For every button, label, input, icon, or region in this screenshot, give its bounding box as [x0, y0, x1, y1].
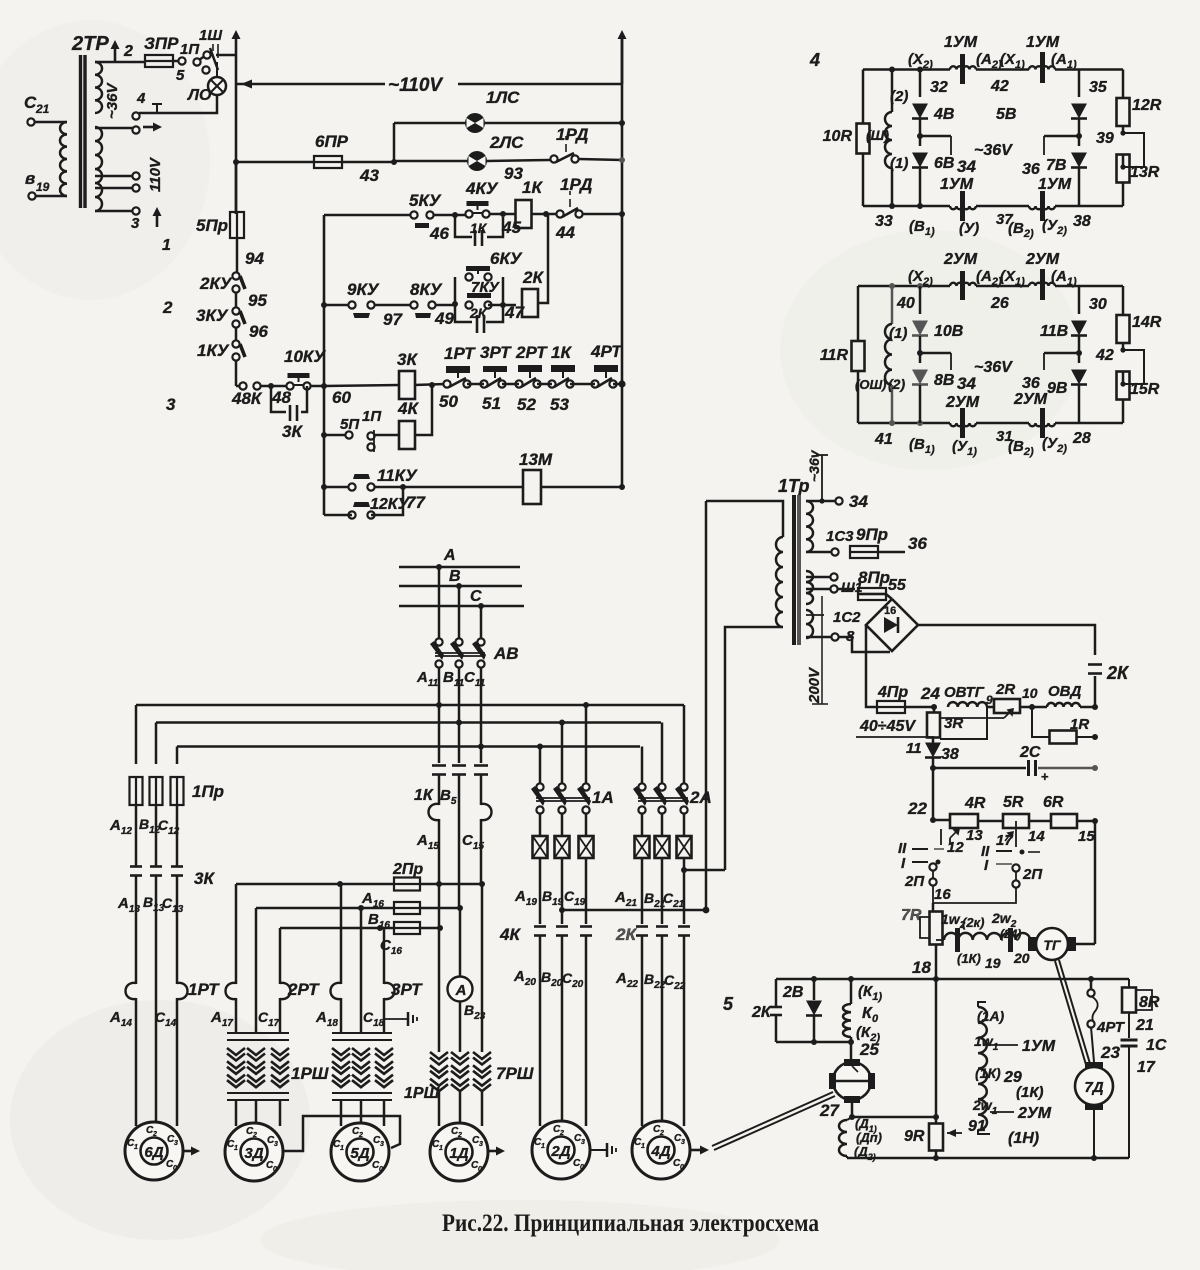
svg-text:36: 36 [1022, 375, 1040, 392]
svg-text:7РШ: 7РШ [496, 1064, 534, 1083]
svg-text:36: 36 [908, 534, 927, 553]
svg-text:43: 43 [359, 166, 379, 185]
aux contact 2К parallel frame [455, 277, 506, 333]
terminal В19 [25, 169, 50, 200]
resistor 1R [1032, 707, 1098, 744]
svg-text:42: 42 [1095, 347, 1114, 364]
terminal С21 [24, 93, 50, 126]
svg-text:4: 4 [136, 90, 146, 107]
svg-text:50: 50 [439, 392, 458, 411]
labels А17 С17 [210, 1009, 280, 1029]
svg-text:Рис.22. Принципиальная электро: Рис.22. Принципиальная электросхема [442, 1210, 819, 1237]
1Д leads [439, 1092, 482, 1138]
potentiometer 2R [987, 681, 1020, 713]
wire А16 rung [256, 905, 463, 911]
fuse 1Пр А12 [130, 777, 143, 805]
bus B [399, 568, 522, 586]
svg-text:5В: 5В [996, 106, 1016, 123]
svg-text:95: 95 [248, 291, 267, 310]
thermal contact 2РТ [515, 343, 548, 414]
svg-text:4R: 4R [964, 795, 986, 812]
label 45 [501, 218, 521, 237]
label 97 [383, 310, 403, 329]
svg-text:~36V: ~36V [974, 359, 1013, 376]
svg-text:5R: 5R [1003, 794, 1024, 811]
coil ОВД [1020, 683, 1082, 710]
svg-text:32: 32 [930, 79, 948, 96]
svg-text:3: 3 [174, 1140, 178, 1147]
svg-text:1Тр: 1Тр [778, 476, 810, 496]
button 7КУ [465, 279, 500, 309]
svg-text:34: 34 [957, 374, 976, 393]
svg-text:1П: 1П [180, 41, 200, 58]
resistor 8R [1122, 979, 1160, 1013]
svg-text:6КУ: 6КУ [490, 249, 523, 268]
svg-text:2R: 2R [995, 681, 1015, 698]
svg-text:49: 49 [434, 309, 454, 328]
svg-text:1С2: 1С2 [833, 609, 861, 626]
svg-text:2: 2 [123, 43, 133, 60]
label 10 [1022, 685, 1038, 701]
svg-text:38: 38 [1073, 213, 1091, 230]
label 16 [934, 886, 951, 903]
4Д columns mid [642, 858, 687, 924]
bank 1РШ 3Д rails [227, 1033, 289, 1040]
labels А21 В21 С21 [614, 889, 685, 910]
tachogenerator ТГ [1028, 928, 1076, 960]
svg-text:2П: 2П [1022, 866, 1043, 883]
resistor 12R [1117, 97, 1162, 126]
stack bottom lead [978, 1130, 990, 1134]
node 39 bracket [1096, 130, 1144, 170]
svg-text:(1К): (1К) [975, 1065, 1001, 1081]
relay coil 2К [522, 268, 544, 317]
svg-text:1РШ: 1РШ [291, 1064, 329, 1083]
svg-text:~110V: ~110V [388, 75, 443, 96]
svg-text:3: 3 [166, 395, 176, 414]
wire 36 tick УМ2 [1022, 353, 1079, 392]
svg-text:6Д: 6Д [144, 1144, 163, 1161]
Д labels [854, 1116, 882, 1162]
labels А14 С14 [109, 1009, 177, 1029]
label 42 [990, 78, 1009, 95]
label 1РД lower [560, 175, 592, 207]
wire chain to rung 48К [235, 360, 238, 386]
diode 10В [912, 286, 963, 340]
svg-text:4Д: 4Д [650, 1143, 670, 1160]
200V annotation line [812, 596, 828, 704]
svg-text:34: 34 [957, 157, 976, 176]
svg-text:11В: 11В [1040, 323, 1068, 340]
tap 2УМ [990, 1105, 1052, 1122]
3Д leads [236, 1100, 280, 1138]
bridge rectifier 16 [866, 599, 918, 651]
label 110V vertical [147, 156, 164, 192]
svg-text:5П: 5П [340, 416, 360, 433]
label ~110V [388, 75, 443, 96]
svg-text:6ПР: 6ПР [315, 132, 349, 151]
svg-text:2К: 2К [751, 1004, 772, 1021]
svg-text:7R: 7R [901, 907, 922, 924]
svg-text:ЗПР: ЗПР [144, 34, 179, 53]
node X2 УМ2 [908, 268, 933, 288]
svg-text:48: 48 [271, 388, 291, 407]
svg-text:(1Н): (1Н) [1008, 1130, 1039, 1147]
svg-text:2: 2 [457, 1132, 462, 1139]
svg-text:2: 2 [152, 1131, 157, 1138]
fuse 8Пр [858, 568, 890, 600]
phase wire B horizontal [156, 721, 661, 724]
chain contact 94 96 bus [235, 162, 238, 214]
label 35 [1089, 79, 1108, 96]
diode 9В [1047, 336, 1087, 423]
label ~36V УМ1 [974, 142, 1013, 159]
svg-text:0: 0 [273, 1166, 277, 1173]
svg-text:16: 16 [934, 886, 951, 903]
svg-text:1: 1 [641, 1143, 645, 1150]
ground at С18 [384, 1012, 417, 1026]
svg-text:10: 10 [1022, 685, 1038, 701]
svg-text:3КУ: 3КУ [196, 306, 229, 325]
wire 48К to 48 [260, 383, 290, 389]
svg-text:(Ш): (Ш) [866, 127, 889, 143]
svg-text:3: 3 [581, 1139, 585, 1146]
svg-text:11R: 11R [820, 347, 849, 364]
contact 8КУ [410, 280, 443, 318]
svg-text:2К: 2К [1106, 663, 1130, 683]
wire switch to bus [216, 54, 236, 57]
transformer 1ТР core [794, 495, 799, 645]
tap 17 14 [996, 828, 1045, 849]
svg-text:~36V: ~36V [974, 142, 1013, 159]
fuse А16 [361, 890, 420, 914]
contact 48 with 10КУ [271, 347, 326, 407]
labels А13 В13 С13 [117, 894, 184, 915]
УМ2 right edge [1122, 286, 1125, 423]
svg-text:1А: 1А [592, 788, 614, 807]
svg-text:19: 19 [36, 180, 50, 194]
labels А18 С18 [315, 1009, 385, 1029]
svg-text:1УМ: 1УМ [944, 34, 978, 51]
transformer 2ТР primary winding [60, 122, 67, 196]
thermal 1РТ bumps [126, 980, 221, 999]
1ТР secondary winding upper [806, 501, 813, 552]
svg-text:1УМ: 1УМ [1026, 34, 1060, 51]
contactor 1К main contacts [432, 766, 488, 909]
svg-text:14R: 14R [1132, 314, 1162, 331]
label 43 [359, 166, 379, 185]
winding labels 1w2 2w2 [941, 910, 1030, 971]
labels А20 В20 С20 [513, 968, 584, 990]
label 44 [555, 223, 575, 242]
УМ1 right edge with 12R 13R [1122, 70, 1125, 207]
thermal element А15 [416, 804, 439, 884]
svg-text:(2): (2) [888, 376, 905, 392]
resistor 6R [1029, 794, 1098, 828]
svg-text:8R: 8R [1139, 994, 1160, 1011]
svg-text:15R: 15R [1130, 381, 1160, 398]
arrow tap 2 up [111, 40, 134, 62]
tap110 bottom terminal 3 [95, 207, 171, 254]
svg-text:В: В [449, 568, 461, 585]
wire secondary36 top [95, 61, 146, 64]
wire 36 tick УМ1 [1022, 136, 1079, 178]
field winding stack 1w1 2w1 [978, 1002, 987, 1130]
svg-text:19: 19 [985, 955, 1001, 971]
svg-text:12R: 12R [1132, 97, 1162, 114]
svg-text:(1К): (1К) [957, 951, 981, 966]
label 2 margin [162, 298, 173, 317]
svg-text:(Дп): (Дп) [856, 1130, 882, 1145]
wire В11 column top [456, 583, 462, 639]
label 94 [245, 249, 264, 268]
selector 2П left [898, 840, 944, 890]
svg-text:А: А [443, 547, 456, 564]
resistor 3R [927, 707, 963, 738]
5Д leads [341, 1100, 384, 1138]
bank 1РШ 3Д chevrons [227, 1048, 329, 1087]
resistor 11R [820, 341, 865, 371]
terminal 5 [173, 57, 186, 84]
svg-text:47: 47 [504, 303, 525, 322]
wire 12КУ join [324, 487, 403, 515]
svg-text:1УМ: 1УМ [1038, 176, 1072, 193]
svg-text:3: 3 [131, 215, 140, 232]
contact 2К on bus [1088, 663, 1130, 707]
svg-text:11КУ: 11КУ [377, 466, 418, 485]
resistor 5R [978, 794, 1029, 828]
contact 12КУ [348, 496, 409, 519]
terminal 8 [806, 628, 855, 645]
wire lamp to tap4 [139, 95, 217, 113]
label 40-45V [856, 718, 934, 737]
node A2 X1 labels [976, 51, 1025, 71]
stack labels [968, 1008, 1044, 1147]
svg-text:3: 3 [274, 1141, 278, 1148]
svg-text:0: 0 [478, 1166, 482, 1173]
coil ОВТГ [944, 684, 993, 707]
svg-text:40: 40 [896, 295, 915, 312]
fuse 5Пр [196, 212, 244, 238]
svg-text:7Д: 7Д [1084, 1079, 1103, 1096]
svg-text:53: 53 [550, 395, 569, 414]
svg-text:3РТ: 3РТ [391, 980, 423, 999]
thermal 3РТ bumps [331, 980, 424, 999]
selector wires [933, 821, 1016, 903]
svg-text:15: 15 [1078, 828, 1095, 845]
relay coil 3К [397, 350, 418, 399]
label 15 [1078, 828, 1095, 845]
svg-text:10R: 10R [823, 128, 853, 145]
switch 1Ш [199, 27, 222, 70]
wire 8 to bridge bottom [839, 637, 890, 652]
4Д leads [642, 936, 684, 1136]
button 4КУ [465, 179, 499, 218]
wire 2Пр rung [236, 881, 485, 887]
node A1 УМ2 [1051, 268, 1077, 288]
resistor 7R [901, 903, 943, 945]
contact 48К [231, 382, 263, 408]
contact 1К thermal row [548, 343, 575, 414]
labels А12 В12 С12 [109, 816, 180, 837]
coil Д1 Дп Д2 [839, 1100, 855, 1158]
svg-text:2УМ: 2УМ [1017, 1105, 1052, 1122]
svg-text:2: 2 [659, 1130, 664, 1137]
svg-text:2К: 2К [615, 925, 637, 944]
5Д columns [341, 884, 384, 1033]
selector 2П right [981, 843, 1043, 888]
wire bridge left to 4Пр [866, 625, 877, 707]
svg-text:ЛО: ЛО [187, 87, 212, 104]
svg-text:2: 2 [358, 1132, 363, 1139]
terminal 1С3 [806, 528, 854, 556]
coil 1УМ bottom-right [1029, 176, 1072, 221]
svg-text:38: 38 [941, 746, 959, 763]
svg-text:(2к): (2к) [962, 915, 984, 930]
label 49 [434, 309, 454, 328]
5Д to bank [341, 998, 384, 1033]
svg-text:1УМ: 1УМ [940, 176, 974, 193]
label 27 [819, 1101, 840, 1120]
2R slider [941, 709, 1013, 718]
svg-text:5: 5 [723, 994, 734, 1014]
svg-text:2Пр: 2Пр [392, 861, 423, 878]
label 200V [806, 666, 823, 704]
svg-text:33: 33 [875, 213, 893, 230]
wire ТГ to bus [1076, 821, 1095, 944]
6Д leads [136, 998, 177, 1126]
svg-text:10КУ: 10КУ [284, 347, 326, 366]
svg-text:4К: 4К [499, 925, 521, 944]
lamp ЛО [187, 62, 226, 104]
wire 2К coil up to rung [537, 214, 548, 303]
diode 11В [1040, 286, 1087, 340]
svg-text:(1): (1) [890, 155, 908, 172]
wire phaseB left bend [155, 723, 158, 765]
resistor 13R [1117, 155, 1160, 183]
6Д columns [136, 876, 177, 1138]
wire primary bottom to x725 [725, 627, 783, 870]
svg-text:46: 46 [429, 224, 449, 243]
coil 1УМ bottom-left [940, 176, 976, 221]
taps to 2А [642, 705, 684, 784]
label 46 [429, 224, 449, 243]
svg-text:1РТ: 1РТ [444, 344, 476, 363]
svg-text:1РД: 1РД [560, 175, 592, 194]
switch 1А [531, 783, 614, 813]
diode 6В [912, 119, 954, 206]
svg-text:+: + [1041, 769, 1049, 784]
relay coil 1К [516, 178, 544, 228]
bank 1РШ 3Д bottom rails [227, 1093, 289, 1100]
svg-text:(ОШ): (ОШ) [855, 377, 887, 392]
svg-text:1R: 1R [1070, 716, 1089, 733]
thermal element С15 [462, 804, 492, 884]
svg-text:3К: 3К [282, 422, 303, 441]
wire ~110V top bus [236, 80, 622, 89]
svg-text:13R: 13R [1130, 164, 1160, 181]
wire С11 column top [478, 603, 484, 639]
svg-text:2А: 2А [689, 788, 712, 807]
2ТР secondary winding 110V [95, 127, 102, 211]
svg-text:1С: 1С [1146, 1037, 1167, 1054]
fuse 1Пр В12 [150, 777, 163, 805]
label 93 [504, 164, 523, 183]
wire 22 vertical [930, 768, 936, 823]
label ~36V УМ2 [974, 359, 1013, 376]
svg-text:1: 1 [162, 237, 171, 254]
thermal 2РТ bumps [226, 980, 321, 999]
coil 2УМ top-right [1025, 251, 1060, 300]
wire fuse to chain [236, 238, 239, 273]
svg-text:28: 28 [1072, 430, 1091, 447]
svg-text:2УМ: 2УМ [1013, 391, 1048, 408]
resistor 10R [823, 124, 870, 154]
svg-text:(1А): (1А) [977, 1008, 1005, 1024]
bank 1РШ 5Д chevrons [332, 1048, 440, 1102]
svg-text:39: 39 [1096, 130, 1114, 147]
terminal labels УМ2 bottom [874, 428, 1091, 458]
svg-text:9R: 9R [904, 1128, 925, 1145]
label 96 [249, 322, 268, 341]
transformer 2ТР label [71, 33, 109, 55]
svg-text:(У): (У) [959, 220, 979, 237]
svg-text:АВ: АВ [493, 644, 519, 663]
УМ2 bottom edge wire [858, 420, 1123, 426]
labels А19 В19 С19 [514, 888, 586, 908]
motor 2Д [532, 1121, 590, 1179]
svg-text:1: 1 [340, 1145, 344, 1152]
wire columns to 1К [436, 667, 484, 763]
capacitor 2С [930, 744, 1098, 784]
svg-text:1РШ: 1РШ [404, 1085, 440, 1102]
wire 34 tick УМ2 [920, 353, 976, 393]
svg-text:9: 9 [986, 693, 993, 707]
svg-text:97: 97 [383, 310, 403, 329]
svg-text:1К: 1К [470, 220, 488, 236]
motor 3Д [225, 1123, 283, 1181]
wire В16 rung [280, 925, 443, 931]
svg-text:8В: 8В [934, 372, 954, 389]
wire ОВД to bus [1080, 704, 1098, 710]
contact 3КУ [196, 292, 245, 328]
label 23 [1100, 1043, 1120, 1062]
resistor 4R [933, 795, 986, 828]
svg-text:6В: 6В [934, 155, 954, 172]
contactor 4К contacts [499, 925, 592, 944]
wire y910 [562, 907, 709, 914]
svg-text:44: 44 [555, 223, 575, 242]
svg-text:10В: 10В [934, 323, 963, 340]
fuse ЗПР [144, 34, 179, 67]
svg-text:7КУ: 7КУ [471, 279, 501, 296]
motor 4Д [632, 1121, 690, 1179]
label 47 [504, 303, 525, 322]
svg-text:3Д: 3Д [244, 1145, 263, 1162]
ТГ compensation winding [936, 928, 1030, 952]
2Д columns mid [540, 858, 586, 924]
label 24 [920, 684, 940, 703]
label 5 region [723, 994, 734, 1014]
fuse В16 [368, 911, 420, 934]
svg-text:1КУ: 1КУ [197, 341, 230, 360]
aux contact 1К parallel [455, 217, 503, 246]
wire 48 to bus 60 [310, 386, 351, 407]
svg-text:17: 17 [996, 832, 1013, 849]
svg-text:17: 17 [1137, 1059, 1156, 1076]
1ТР secondary winding middle [806, 571, 813, 604]
label 21 [1135, 1017, 1154, 1034]
